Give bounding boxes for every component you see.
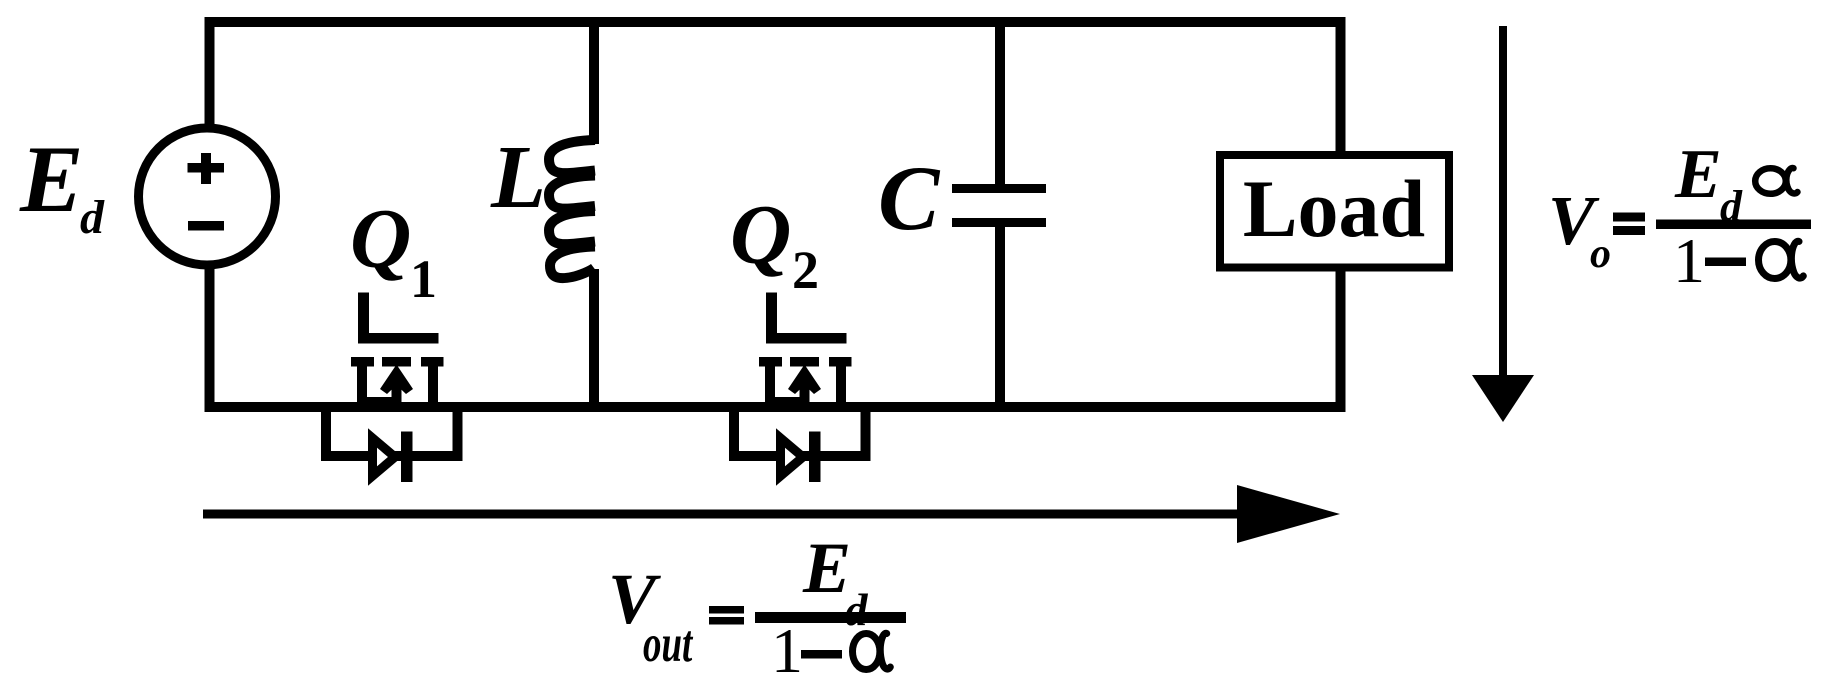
svg-text:E: E: [19, 126, 83, 232]
svg-text:out: out: [643, 613, 693, 672]
wire capacitor branch bottom: [995, 221, 1005, 412]
arrow Vo (right side, downward): [1472, 26, 1534, 422]
svg-text:o: o: [1590, 231, 1611, 277]
svg-text:1: 1: [771, 615, 803, 684]
Q1 source foot: [357, 397, 401, 407]
Q1 source stub: [357, 366, 367, 412]
wire bottom bus: [205, 402, 1346, 412]
arrow Vout (bottom, rightward): [203, 485, 1340, 543]
wire top bus: [205, 17, 1346, 27]
alpha (denominator): [1759, 242, 1791, 279]
wire load branch: [1336, 17, 1346, 412]
wire capacitor branch top: [995, 17, 1005, 190]
Q2 source/body/drain caps: [759, 357, 782, 367]
svg-text:1: 1: [410, 249, 437, 309]
Q1 drain stub: [428, 366, 438, 412]
svg-text:Load: Load: [1243, 163, 1425, 254]
svg-text:Q: Q: [350, 192, 411, 286]
svg-text:d: d: [1720, 182, 1743, 231]
svg-text:1: 1: [1673, 225, 1705, 296]
Q1 gate lead: [358, 293, 369, 344]
wire inductor branch bottom: [589, 269, 599, 412]
voltage source minus sign: [188, 221, 224, 231]
Q2 gate lead: [766, 293, 777, 344]
svg-text:L: L: [490, 128, 546, 227]
diode D2 bypass loop: [734, 407, 866, 456]
Q2 source stub: [765, 366, 775, 412]
svg-text:d: d: [80, 191, 105, 244]
svg-text:Q: Q: [730, 188, 791, 282]
transistor Q2: [759, 293, 852, 413]
load box: [1220, 155, 1449, 268]
Q2 drain stub: [836, 366, 846, 412]
inductor L coil: [549, 140, 595, 278]
diode D2: [781, 432, 821, 483]
Q2 source foot: [765, 397, 809, 407]
alpha (denominator): [853, 634, 880, 670]
svg-text:2: 2: [792, 240, 819, 300]
diode D1: [373, 438, 396, 476]
Q1 source/body/drain caps: [351, 357, 374, 367]
svg-text:E: E: [1674, 136, 1722, 213]
wire inductor branch top: [589, 17, 599, 144]
diode D1 bypass loop: [326, 407, 458, 456]
svg-text:E: E: [802, 528, 851, 608]
formula Vout = Ed / (1-a): [608, 528, 906, 684]
transistor Q1: [351, 293, 444, 413]
wire left vertical upper: [205, 17, 215, 130]
alpha (numerator): [1755, 168, 1786, 194]
Q1 body arrow: [392, 383, 402, 412]
formula Vo = Ed a / (1-a): [1548, 136, 1811, 296]
voltage source plus sign: [188, 153, 225, 184]
svg-text:C: C: [878, 147, 941, 249]
wire left vertical lower: [205, 262, 215, 412]
capacitor C plates: [952, 189, 1046, 223]
Q2 body arrow: [800, 383, 810, 412]
voltage source Ed circle: [139, 128, 276, 265]
svg-text:d: d: [845, 585, 869, 635]
